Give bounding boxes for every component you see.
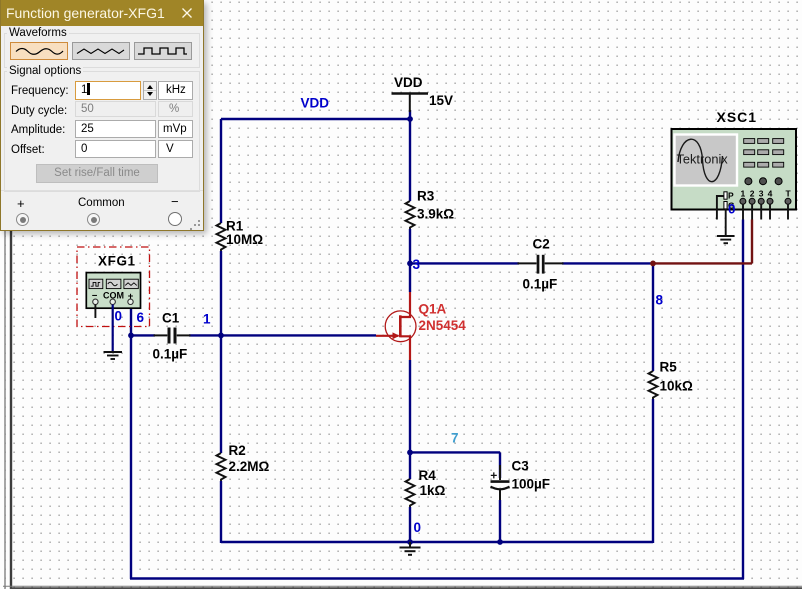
capacitor C2: [518, 237, 564, 292]
svg-text:XFG1: XFG1: [98, 254, 136, 269]
junction node8 at (653,263): [650, 261, 656, 267]
net label VDD: [301, 96, 330, 111]
wire left column middle (R1 to R2): [220, 251, 222, 453]
frequency row: [11, 85, 69, 97]
svg-text:VDD: VDD: [301, 96, 330, 111]
wire C3 top lead: [499, 452, 501, 480]
capacitor C1: [153, 311, 191, 362]
resistor R4: [406, 468, 446, 507]
svg-text:C2: C2: [533, 237, 550, 252]
wire R4 to ground rail: [409, 507, 411, 543]
resistor R5: [649, 360, 694, 400]
wire node7 horizontal to C3: [410, 451, 500, 453]
svg-text:0.1µF: 0.1µF: [153, 347, 188, 362]
terminal labels: [17, 196, 25, 211]
svg-text:0.1µF: 0.1µF: [523, 277, 558, 292]
sheet border left: [5, 231, 11, 589]
node 1: [203, 312, 211, 327]
svg-text:P: P: [728, 191, 734, 201]
wire R5 column lower: [652, 399, 654, 543]
VDD power symbol: [392, 75, 454, 112]
junction node3 at (410,263): [407, 261, 413, 267]
wire top rail VDD: [221, 118, 410, 120]
svg-text:1: 1: [203, 312, 211, 327]
svg-text:6: 6: [137, 310, 145, 325]
sheet border bottom: [3, 586, 802, 588]
wire Q1 source to node7 to R4: [409, 360, 411, 479]
resistor R2: [217, 443, 270, 481]
svg-text:1: 1: [741, 189, 746, 199]
svg-text:15V: 15V: [429, 93, 453, 108]
svg-text:3: 3: [413, 257, 421, 272]
wire output horizontal y263 (node3 / C2 / node8): [410, 262, 653, 264]
node 0 (XFG): [115, 309, 123, 324]
svg-text:C3: C3: [512, 459, 530, 474]
wire R5 column upper: [652, 263, 654, 371]
dialog title bar: [1, 0, 203, 26]
XSC1 oscilloscope icon: [672, 109, 797, 211]
wire bottom rail y578: [130, 577, 744, 579]
XSC1 P pin wire: [717, 196, 724, 220]
radio minus: [168, 212, 182, 226]
wire R3 to node3 to Q1 drain: [409, 229, 411, 292]
junction node7 at (410,452): [407, 450, 413, 456]
svg-text:10kΩ: 10kΩ: [660, 379, 694, 394]
svg-text:R2: R2: [229, 443, 246, 458]
svg-text:3: 3: [759, 189, 764, 199]
wire ground rail y542: [221, 541, 653, 543]
node 6: [137, 310, 145, 325]
sine button (selected): [10, 42, 68, 60]
wire scope channel1 column: [742, 220, 744, 580]
svg-text:1kΩ: 1kΩ: [420, 483, 446, 498]
svg-text:10MΩ: 10MΩ: [226, 232, 263, 247]
XFG1 minus stub: [94, 305, 96, 319]
XSC1 pin stubs: [743, 204, 788, 220]
node 0 (R4): [414, 520, 422, 535]
radio common: [87, 213, 100, 226]
wire scope channel2 maroon: [653, 220, 752, 264]
triangle button: [72, 42, 130, 60]
set rise/fall button: [36, 164, 158, 183]
resistor R1: [217, 219, 264, 252]
ground (XSC1 G): [717, 236, 735, 243]
svg-text:Q1A: Q1A: [419, 301, 447, 316]
svg-text:2: 2: [750, 189, 755, 199]
svg-text:XSC1: XSC1: [717, 109, 758, 125]
svg-text:2.2MΩ: 2.2MΩ: [229, 459, 270, 474]
wire VDD column to R3: [409, 110, 411, 201]
junction node1 at (221,335): [218, 333, 224, 339]
wire C3 bottom lead: [499, 490, 501, 543]
amplitude row: [11, 124, 65, 136]
XFG1 COM wire: [112, 305, 114, 353]
svg-text:0: 0: [728, 202, 736, 217]
svg-text:3.9kΩ: 3.9kΩ: [417, 207, 454, 222]
svg-text:0: 0: [115, 309, 123, 324]
resize grip: [188, 218, 200, 228]
XSC1 G wire: [725, 209, 727, 236]
node 3: [413, 257, 421, 272]
wire XFG plus terminal down: [130, 305, 132, 579]
junction C3 bottom at (500,542): [497, 539, 503, 545]
square button: [134, 42, 192, 60]
XFG1 instrument icon: [77, 247, 150, 327]
offset row: [11, 144, 45, 156]
resistor R3: [406, 189, 455, 230]
svg-text:R5: R5: [660, 360, 678, 375]
duty cycle row: [11, 105, 67, 117]
svg-text:VDD: VDD: [394, 75, 423, 90]
ground (R4): [400, 542, 421, 555]
svg-text:2N5454: 2N5454: [419, 318, 467, 333]
svg-text:0: 0: [414, 520, 422, 535]
capacitor C3 (polarized): [491, 459, 551, 492]
separator: [1, 190, 203, 191]
node 8: [656, 293, 664, 308]
radio plus: [16, 213, 29, 226]
ground (XFG1 COM): [104, 352, 123, 359]
wire input horizontal y335 (node 6 / C1 / node 1 / gate): [131, 334, 376, 336]
svg-text:8: 8: [656, 293, 664, 308]
spinner: [143, 81, 157, 100]
function generator dialog: [0, 0, 204, 231]
svg-text:R4: R4: [419, 468, 437, 483]
node 7: [451, 431, 459, 446]
junction R4 ground at (410,542): [407, 539, 413, 545]
junction node6 at (131,335): [128, 333, 134, 339]
node 0 (XSC1): [728, 202, 736, 217]
svg-text:R3: R3: [417, 189, 435, 204]
signal options group: [4, 71, 200, 192]
svg-text:7: 7: [451, 431, 459, 446]
svg-text:Tektronix: Tektronix: [677, 152, 729, 167]
waveforms group: [4, 33, 200, 68]
wire left column lower (R2 to rail): [220, 481, 222, 543]
svg-text:4: 4: [768, 189, 773, 199]
svg-text:C1: C1: [162, 311, 180, 326]
junction VDD at (410,119): [407, 116, 413, 122]
transistor Q1 (JFET 2N5454, selected red): [376, 292, 466, 360]
wire left column upper (to R1): [220, 119, 222, 223]
svg-text:100µF: 100µF: [512, 477, 551, 492]
svg-text:T: T: [786, 189, 792, 199]
